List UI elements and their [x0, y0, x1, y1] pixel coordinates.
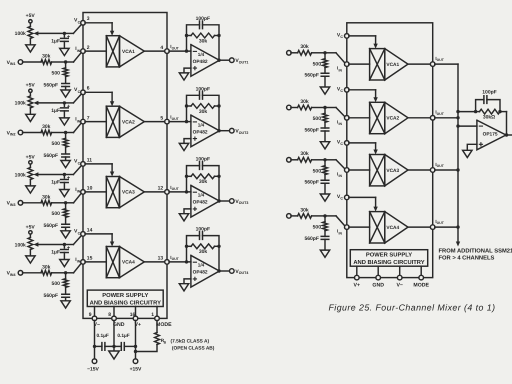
wire wiper to VC pin ch2 [64, 102, 73, 104]
svg-text:AND BIASING CIRCUITRY: AND BIASING CIRCUITRY [353, 259, 424, 266]
wire bus to feedback network [458, 111, 476, 113]
svg-text:12: 12 [158, 186, 164, 192]
svg-text:IN: IN [77, 190, 81, 194]
wire IN pin to VCA3 [85, 191, 106, 193]
potentiometer 100k ch2 [28, 96, 33, 108]
capacitor 560pF ch2 [65, 147, 67, 153]
svg-text:30k: 30k [42, 264, 51, 270]
svg-text:10: 10 [87, 186, 93, 192]
svg-text:11: 11 [87, 157, 93, 163]
svg-text:100pF: 100pF [482, 90, 496, 96]
svg-text:100pF: 100pF [196, 86, 210, 92]
svg-text:C: C [340, 35, 343, 39]
svg-text:+: + [67, 34, 71, 40]
SSM2164 package outline (left) [83, 13, 167, 319]
node feedback junction ch1 [185, 49, 188, 52]
svg-text:500: 500 [52, 141, 61, 147]
svg-text:GND: GND [372, 283, 384, 289]
svg-text:VOUT4: VOUT4 [235, 269, 248, 275]
svg-text:IOUT: IOUT [170, 44, 179, 50]
svg-text:+15V: +15V [130, 366, 142, 372]
svg-text:5: 5 [160, 115, 163, 121]
resistor 500 mixer ch2 [324, 108, 326, 114]
svg-text:30k: 30k [42, 124, 51, 130]
svg-text:IN: IN [339, 231, 343, 235]
mixer input ch3 [287, 158, 292, 163]
svg-text:0.1µF: 0.1µF [117, 333, 129, 339]
wire +5V to pot R3a [29, 164, 31, 167]
wire wiper to VC pin ch4 [64, 244, 73, 246]
wire IOUT to summing bus ch3 [435, 169, 458, 171]
pin IN 7 ch2 [81, 119, 86, 124]
wire +5V to pot R1a [29, 23, 31, 26]
wire VC to VCA1 gain arrow [85, 22, 112, 24]
pin IOUT mixer ch1 [430, 62, 435, 67]
VCA2 multiplier cell [106, 106, 119, 137]
wire VCA4 to output pin [144, 261, 165, 263]
pot wiper arrow ch4 [38, 244, 65, 246]
svg-text:IN: IN [339, 68, 343, 72]
potentiometer 100k ch1 [28, 26, 33, 38]
op-amp OP175 [477, 120, 506, 150]
wire VCA3 to IOUT pin mixer [408, 169, 431, 171]
svg-text:(OPEN CLASS AB): (OPEN CLASS AB) [172, 346, 215, 352]
pin VC mixer ch3 [345, 141, 350, 146]
svg-text:IN: IN [339, 174, 343, 178]
pin IN mixer ch4 [345, 225, 350, 230]
svg-text:1/4: 1/4 [198, 263, 205, 268]
ground below pot ch1 [29, 38, 31, 44]
svg-text:VCA2: VCA2 [122, 119, 135, 125]
pin OUT 12 ch3 [165, 190, 170, 195]
wire junction to IN pin mixer ch3 [325, 159, 336, 161]
node feedback junction ch4 [185, 260, 188, 263]
svg-text:IOUT: IOUT [435, 162, 444, 168]
wire V- rail [94, 346, 96, 359]
wire wiper to VC pin ch3 [64, 174, 73, 176]
wire junction to IN pin ch1 [66, 61, 74, 63]
svg-text:IOUT: IOUT [170, 115, 179, 121]
svg-text:0.1µF: 0.1µF [97, 333, 109, 339]
svg-text:13: 13 [158, 256, 164, 262]
capacitor 1uF ch4 [63, 245, 65, 249]
svg-text:1/4: 1/4 [198, 52, 205, 57]
wire IN pin to VCA4 [85, 261, 106, 263]
pot wiper arrow ch2 [38, 102, 65, 104]
pin 8 (GND) bottom left [113, 307, 115, 317]
resistor 500 ch2 [65, 133, 67, 139]
resistor 30k feedback ch2 [187, 105, 192, 107]
pin VC 11 ch3 [81, 162, 86, 167]
wire VC to VCA4 mixer arrow [349, 196, 376, 198]
svg-text:IOUT: IOUT [170, 255, 179, 261]
ground below pot ch4 [29, 250, 31, 256]
svg-text:OP482: OP482 [193, 270, 208, 276]
wire VC to VCA3 gain arrow [85, 163, 112, 165]
capacitor 1uF ch2 [63, 103, 65, 107]
capacitor 0.1uF (V- to GND) [93, 345, 96, 348]
wire junction to IN pin mixer ch2 [325, 107, 336, 109]
svg-text:VOUT1: VOUT1 [235, 58, 248, 64]
wire wiper to VC pin ch1 [64, 32, 73, 34]
svg-text:1µF: 1µF [51, 250, 60, 256]
node feedback junction ch3 [185, 190, 188, 193]
VCA4 multiplier cell (mixer) [370, 212, 385, 243]
svg-text:560pF: 560pF [44, 223, 58, 229]
pin 9 (V−) bottom left [94, 307, 96, 317]
node IN junction ch2 [64, 131, 67, 134]
svg-text:3: 3 [87, 16, 90, 22]
wire feedback down to output ch2 [218, 106, 220, 131]
svg-text:500: 500 [313, 225, 322, 231]
mixer input ch1 [287, 51, 292, 56]
output VOUT1 [219, 59, 229, 61]
op-amp 1/4 OP482 ch1 [191, 45, 220, 77]
ground below 560pF ch1 [65, 87, 67, 91]
VCA1 multiplier cell [106, 36, 119, 67]
node V+ rail [134, 345, 137, 348]
svg-text:POWER SUPPLY: POWER SUPPLY [366, 252, 412, 259]
svg-text:C: C [78, 90, 81, 94]
ground at op-amp + ch3 [184, 209, 191, 214]
svg-text:30k: 30k [300, 151, 309, 157]
ground symbol below GND pin [113, 346, 115, 351]
power supply and biasing box (right) [350, 250, 427, 267]
pin OUT 5 ch2 [165, 119, 170, 124]
svg-text:−15V: −15V [87, 366, 99, 372]
pin VC mixer ch1 [345, 34, 350, 39]
svg-text:VOUT2: VOUT2 [235, 129, 248, 135]
pot wiper arrow ch1 [38, 32, 65, 34]
node mixer junction ch3 [323, 158, 326, 161]
ground below 1uF ch2 [63, 111, 65, 118]
node mixer junction ch4 [323, 214, 326, 217]
svg-text:30k: 30k [199, 109, 208, 115]
svg-text:VCA1: VCA1 [386, 62, 399, 68]
wire feedback up ch3 [186, 176, 188, 192]
svg-text:+: + [67, 104, 71, 110]
capacitor 100pF feedback ch3 [187, 166, 200, 177]
potentiometer 100k ch3 [28, 168, 33, 180]
resistor 500 mixer ch3 [324, 160, 326, 166]
svg-text:1: 1 [151, 312, 154, 318]
capacitor 100pF feedback ch2 [187, 95, 200, 106]
svg-text:C: C [78, 20, 81, 24]
svg-text:100k: 100k [15, 242, 26, 248]
resistor 500 ch3 [65, 203, 67, 209]
output VOUT3 [219, 200, 229, 202]
wire VC to VCA1 mixer arrow [349, 35, 376, 37]
svg-text:100k: 100k [15, 101, 26, 107]
svg-text:560pF: 560pF [44, 293, 58, 299]
resistor 30k mixer ch2 [291, 107, 298, 109]
wire IN pin to VCA2 mixer [349, 117, 370, 119]
potentiometer 100k ch4 [28, 238, 33, 250]
capacitor 1uF ch1 [63, 33, 65, 37]
svg-text:1µF: 1µF [51, 108, 60, 114]
ground at op-amp + ch4 [184, 279, 191, 284]
ground at op-amp + ch1 [184, 68, 191, 73]
svg-text:500: 500 [52, 281, 61, 287]
svg-text:OP482: OP482 [193, 59, 208, 65]
capacitor 560pF mixer ch1 [324, 68, 326, 74]
svg-text:100pF: 100pF [196, 16, 210, 22]
node - input tap on bus [456, 124, 459, 127]
wire IOUT to op-amp U3 [169, 191, 191, 193]
terminal -15V [92, 359, 97, 364]
svg-text:500: 500 [313, 116, 322, 122]
svg-text:500: 500 [52, 70, 61, 76]
svg-text:IOUT: IOUT [435, 219, 444, 225]
pin GND bottom right [377, 266, 379, 275]
capacitor 560pF mixer ch3 [324, 175, 326, 181]
svg-text:30k: 30k [300, 99, 309, 105]
svg-text:16: 16 [130, 312, 136, 318]
node feedback tap on bus [456, 110, 459, 113]
wire bus to op-amp - input [458, 125, 477, 127]
output VOUT4 [219, 270, 229, 272]
op-amp 1/4 OP482 ch4 [191, 255, 220, 287]
svg-text:500: 500 [52, 211, 61, 217]
ground at OP175 + input [467, 144, 477, 150]
wire VCA1 to IOUT pin mixer [408, 63, 431, 65]
pin IN 15 ch4 [81, 260, 86, 265]
svg-text:VCA3: VCA3 [386, 168, 399, 174]
svg-text:560pF: 560pF [304, 236, 318, 242]
wire IN pin to VCA1 mixer [349, 63, 370, 65]
capacitor 560pF mixer ch2 [324, 122, 326, 128]
ground below 1uF ch3 [63, 183, 65, 190]
pin IN mixer ch2 [345, 116, 350, 121]
pin IN mixer ch1 [345, 62, 350, 67]
pin V− bottom right [399, 266, 401, 275]
svg-text:VCA4: VCA4 [386, 225, 399, 231]
ground below 560pF mixer ch2 [324, 131, 326, 142]
svg-text:30k: 30k [42, 194, 51, 200]
ground below 560pF ch2 [65, 157, 67, 161]
summing bus wire [457, 64, 459, 241]
resistor 500 mixer ch4 [324, 216, 326, 222]
svg-text:1/4: 1/4 [198, 122, 205, 127]
svg-text:560pF: 560pF [304, 127, 318, 133]
node mixer junction ch2 [323, 106, 326, 109]
wire IOUT to summing bus ch1 [435, 63, 458, 65]
svg-text:IN: IN [77, 119, 81, 123]
svg-text:100pF: 100pF [196, 227, 210, 233]
svg-text:30k: 30k [199, 179, 208, 185]
svg-text:IN: IN [339, 122, 343, 126]
ground below 1uF ch1 [63, 41, 65, 48]
svg-text:OP482: OP482 [193, 200, 208, 206]
wire IOUT to summing bus ch2 [435, 117, 458, 119]
wire IOUT to op-amp U1 [169, 50, 191, 52]
capacitor 560pF ch4 [65, 287, 67, 293]
svg-text:VOUT3: VOUT3 [235, 199, 248, 205]
svg-text:V+: V+ [354, 283, 361, 289]
capacitor 100pF feedback (mixer) [476, 100, 484, 112]
pin VC mixer ch4 [345, 195, 350, 200]
node mixer junction ch1 [323, 51, 326, 54]
svg-text:C: C [340, 89, 343, 93]
svg-text:MODE: MODE [413, 283, 429, 289]
capacitor 100pF feedback ch4 [187, 236, 200, 247]
svg-text:8: 8 [108, 312, 111, 318]
mixer input ch4 [287, 214, 292, 219]
svg-text:VCA2: VCA2 [386, 116, 399, 122]
svg-text:2: 2 [87, 45, 90, 51]
svg-text:+: + [67, 176, 71, 182]
svg-text:+5V: +5V [26, 154, 36, 160]
svg-text:VCA1: VCA1 [122, 49, 135, 55]
resistor 30k feedback ch1 [187, 35, 192, 37]
svg-text:500: 500 [313, 61, 322, 67]
wire junction to IN pin ch2 [66, 132, 74, 134]
resistor 30k feedback ch4 [187, 245, 192, 247]
VCA3 multiplier cell (mixer) [370, 155, 385, 186]
svg-text:OP482: OP482 [193, 129, 208, 135]
resistor 500 ch4 [65, 273, 67, 279]
wire feedback down to output ch4 [218, 246, 220, 271]
wire feedback up ch2 [186, 106, 188, 122]
svg-text:Figure 25. Four-Channel Mixer: Figure 25. Four-Channel Mixer (4 to 1) [328, 302, 495, 312]
svg-text:V−: V− [396, 283, 403, 289]
capacitor 1uF ch3 [63, 175, 65, 179]
SSM2164 package outline (right) [347, 23, 433, 278]
pin IOUT mixer ch3 [430, 168, 435, 173]
wire feedback down to output ch1 [218, 36, 220, 61]
resistor 30k ch4 [23, 272, 42, 274]
svg-text:100k: 100k [15, 172, 26, 178]
svg-text:30k: 30k [300, 44, 309, 50]
wire VCA1 to output pin [144, 50, 165, 52]
wire VC to VCA4 gain arrow [85, 233, 112, 235]
svg-text:100k: 100k [15, 31, 26, 37]
wire +5V to pot R4a [29, 234, 31, 237]
svg-text:+5V: +5V [26, 13, 36, 19]
wire feedback up ch1 [186, 36, 188, 52]
svg-text:IN: IN [77, 260, 81, 264]
pin VC 14 ch4 [81, 232, 86, 237]
wire IN pin to VCA1 [85, 50, 106, 52]
wire VCA2 to output pin [144, 121, 165, 123]
power supply and biasing box (left) [87, 290, 163, 306]
svg-text:VIN4: VIN4 [7, 271, 16, 277]
output VOUT2 [219, 130, 229, 132]
VCA2 multiplier cell (mixer) [370, 102, 385, 133]
capacitor 560pF mixer ch4 [324, 231, 326, 237]
node IN junction ch1 [64, 60, 67, 63]
svg-text:1µF: 1µF [51, 180, 60, 186]
node VC junction ch4 [63, 243, 66, 246]
capacitor 100pF feedback ch1 [187, 25, 200, 36]
svg-text:C: C [340, 197, 343, 201]
ground below pot ch2 [29, 108, 31, 114]
op-amp 1/4 OP482 ch3 [191, 185, 220, 217]
pin OUT 4 ch1 [165, 49, 170, 54]
pin 1 (MODE) bottom left [156, 307, 158, 317]
pin 16 (V+) bottom left [135, 307, 137, 317]
VCA1 multiplier cell (mixer) [370, 49, 385, 80]
svg-text:+5V: +5V [26, 83, 36, 89]
svg-text:1/4: 1/4 [198, 193, 205, 198]
svg-text:15: 15 [87, 256, 93, 262]
node IN junction ch4 [64, 271, 67, 274]
svg-text:14: 14 [87, 227, 93, 233]
node IN junction ch3 [64, 201, 67, 204]
resistor 500 mixer ch1 [324, 53, 326, 59]
svg-text:30k: 30k [300, 207, 309, 213]
ground below 560pF mixer ch4 [324, 239, 326, 250]
svg-text:+: + [67, 246, 71, 252]
svg-text:FOR > 4 CHANNELS: FOR > 4 CHANNELS [439, 255, 495, 262]
svg-text:1µF: 1µF [51, 38, 60, 44]
resistor RB mode select [155, 333, 160, 345]
svg-text:100pF: 100pF [196, 157, 210, 163]
wire VCA3 to output pin [144, 191, 165, 193]
VCA3 multiplier cell [106, 177, 119, 208]
terminal +15V [135, 346, 137, 359]
capacitor 560pF ch1 [65, 77, 67, 83]
wire junction to IN pin mixer ch4 [325, 215, 336, 217]
svg-text:560pF: 560pF [44, 82, 58, 88]
svg-text:IOUT: IOUT [435, 110, 444, 116]
svg-text:VIN1: VIN1 [7, 60, 16, 66]
node VC junction ch2 [63, 101, 66, 104]
wire +5V to pot R2a [29, 93, 31, 96]
resistor 30k ch3 [23, 202, 42, 204]
wire VC to VCA2 mixer arrow [349, 89, 376, 91]
svg-text:VCA4: VCA4 [122, 260, 135, 266]
resistor 30k ch2 [23, 132, 42, 134]
svg-text:C: C [78, 232, 81, 236]
svg-text:6: 6 [87, 86, 90, 92]
pin IOUT mixer ch4 [430, 225, 435, 230]
svg-text:FROM ADDITIONAL SSM2164: FROM ADDITIONAL SSM2164 [439, 247, 512, 254]
svg-text:IN: IN [77, 49, 81, 53]
svg-text:C: C [340, 142, 343, 146]
svg-text:GND: GND [113, 322, 125, 328]
ground below pot ch3 [29, 180, 31, 186]
pin V+ bottom right [356, 266, 358, 275]
wire VC to VCA2 gain arrow [85, 91, 112, 93]
ground below 560pF mixer ch1 [324, 76, 326, 87]
pin IOUT mixer ch2 [430, 116, 435, 121]
svg-text:B: B [164, 341, 167, 345]
pot wiper arrow ch3 [38, 174, 65, 176]
svg-text:560pF: 560pF [44, 153, 58, 159]
resistor 30k feedback (mixer) [476, 111, 480, 113]
svg-text:AND BIASING CIRCUITRY: AND BIASING CIRCUITRY [90, 299, 161, 306]
pin IN 2 ch1 [81, 49, 86, 54]
svg-text:OP175: OP175 [483, 132, 498, 138]
capacitor 560pF ch3 [65, 217, 67, 223]
mixer input ch2 [287, 105, 292, 110]
wire IN pin to VCA3 mixer [349, 169, 370, 171]
svg-text:30k: 30k [199, 38, 208, 44]
wire VC to VCA3 mixer arrow [349, 142, 376, 144]
pin IN 10 ch3 [81, 190, 86, 195]
svg-text:30k: 30k [42, 54, 51, 60]
svg-text:30k: 30k [199, 249, 208, 255]
svg-text:MODE: MODE [156, 322, 172, 328]
svg-text:9: 9 [89, 312, 92, 318]
node VC junction ch3 [63, 173, 66, 176]
svg-text:500: 500 [313, 168, 322, 174]
svg-text:IOUT: IOUT [170, 185, 179, 191]
resistor 500 ch1 [65, 62, 67, 68]
ground below 560pF mixer ch3 [324, 183, 326, 194]
svg-text:IOUT: IOUT [435, 56, 444, 62]
